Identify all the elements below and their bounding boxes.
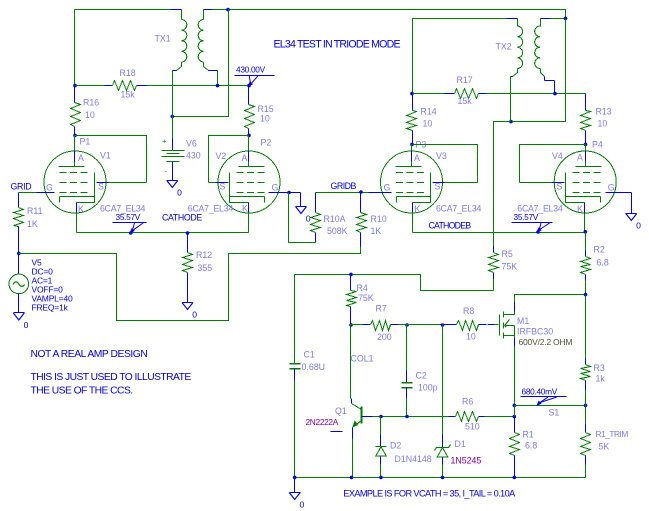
resistor R5 75K [489, 247, 518, 291]
svg-text:R17: R17 [457, 75, 473, 85]
wire: TX2 left coil top feed from P3 rail [413, 19, 518, 94]
resistor R6 510 [449, 397, 515, 432]
text: THIS IS JUST USED TO ILLUSTRATE [31, 372, 192, 383]
junction: R4 bottom / COL1 node [349, 323, 353, 327]
svg-text:D1N4148: D1N4148 [395, 454, 432, 464]
svg-text:P4: P4 [592, 140, 603, 150]
resistor R2 6.8 [581, 233, 609, 295]
svg-text:FREQ=1k: FREQ=1k [32, 303, 69, 313]
junction: R6/R1 node [513, 415, 517, 419]
svg-text:A: A [414, 153, 420, 163]
viewpoint 680.40mV [521, 387, 567, 407]
svg-text:S: S [557, 182, 563, 192]
junction: V5 top node [17, 252, 21, 256]
svg-text:508K: 508K [327, 226, 348, 236]
junction: 35.57V point on cathode rail [129, 231, 133, 235]
svg-text:75K: 75K [358, 293, 374, 303]
wire: TX2 right coil top to B+ [541, 18, 566, 20]
svg-text:G: G [608, 183, 615, 193]
junction: bottom rail R1 [513, 476, 517, 480]
text: EL34 TEST IN TRIODE MODE [274, 39, 401, 51]
tube V4 6CA7_EL34 [517, 151, 620, 215]
junction: R12 top [186, 231, 190, 235]
wire: V2 grid to ground and R10A [277, 193, 301, 207]
resistor R8 10 [443, 306, 495, 342]
svg-text:75K: 75K [502, 262, 518, 272]
svg-text:V1: V1 [100, 151, 111, 161]
svg-text:R2: R2 [594, 245, 605, 255]
svg-text:100p: 100p [418, 383, 438, 393]
source V5 sine [9, 254, 73, 313]
svg-text:K: K [78, 204, 84, 214]
wire: V4 screen-plate loop [520, 145, 586, 183]
transistor Q1 2N2222A [306, 399, 373, 478]
svg-text:K: K [577, 204, 583, 214]
tube V2 6CA7_EL34 [188, 151, 285, 214]
wire: top-left B+ rail to TX1 left coil top [75, 9, 182, 11]
svg-text:G: G [384, 183, 391, 193]
resistor R4 75K [347, 275, 374, 325]
svg-text:A: A [242, 153, 248, 163]
svg-text:R18: R18 [120, 68, 136, 78]
svg-text:6.8: 6.8 [525, 441, 537, 451]
svg-text:R5: R5 [502, 249, 513, 259]
text: S1 [549, 408, 560, 418]
svg-text:35.57V: 35.57V [116, 212, 141, 222]
svg-text:A: A [577, 153, 583, 163]
wire: V5 signal run to R10 [19, 247, 361, 321]
junction: P4 plate node [584, 140, 603, 150]
resistor R10A 508K [311, 193, 348, 243]
resistor R17 15k [413, 75, 586, 106]
svg-text:K: K [242, 204, 248, 214]
junction: P1 plate node [73, 134, 90, 147]
transformer TX1 [155, 10, 218, 71]
svg-text:15k: 15k [121, 90, 136, 100]
svg-text:GRIDB: GRIDB [331, 181, 357, 191]
junction: R7 right / C2 top [405, 323, 409, 327]
junction: D2 top on base line [379, 415, 383, 419]
svg-text:R3: R3 [594, 363, 605, 373]
junction: D1 top on gate line [441, 323, 445, 327]
junction: V6 top jog [171, 115, 175, 119]
svg-text:THE USE OF THE CCS.: THE USE OF THE CCS. [31, 386, 133, 397]
resistor R15 10 [245, 86, 274, 136]
svg-text:0: 0 [24, 320, 29, 330]
junction: R15 top / 430V point [247, 84, 251, 88]
svg-text:R13: R13 [596, 107, 612, 117]
svg-text:TX1: TX1 [155, 34, 171, 44]
svg-text:G: G [272, 183, 279, 193]
transformer TX2 [496, 19, 545, 81]
wire: bottom ground rail [295, 477, 586, 479]
svg-text:EL34 TEST IN TRIODE MODE: EL34 TEST IN TRIODE MODE [274, 39, 401, 51]
svg-text:0: 0 [300, 500, 305, 510]
wire: GRID to V1 grid [19, 192, 45, 194]
ground 0 bottom rail [289, 478, 304, 510]
svg-text:10: 10 [423, 119, 433, 129]
svg-text:TX2: TX2 [496, 42, 512, 52]
capacitor C1 0.68U [290, 275, 325, 478]
svg-text:+: + [162, 137, 167, 146]
wire: V1 screen-plate loop [75, 136, 147, 183]
resistor R12 355 [183, 233, 213, 303]
wire: TX1 left coil bottom down to V6 [172, 71, 174, 149]
svg-text:V4: V4 [552, 151, 563, 161]
text: GRIDB [331, 181, 357, 191]
svg-text:R15: R15 [258, 104, 274, 114]
svg-text:GRID: GRID [11, 182, 32, 192]
svg-text:R12: R12 [196, 250, 212, 260]
svg-text:1k: 1k [596, 374, 606, 384]
junction: bottom rail Q1 emitter [350, 476, 354, 480]
text: THE USE OF THE CCS. [31, 386, 133, 397]
viewpoint 35.57V (right) [512, 212, 553, 233]
svg-text:THIS IS JUST USED TO ILLUSTRAT: THIS IS JUST USED TO ILLUSTRATE [31, 372, 192, 383]
ground 0 below V6 [167, 181, 183, 198]
wire: GRIDB net [316, 192, 381, 194]
svg-text:0: 0 [192, 310, 197, 320]
svg-text:6CA7_EL34: 6CA7_EL34 [436, 204, 482, 214]
svg-text:R16: R16 [83, 98, 99, 108]
resistor R3 1k [581, 295, 606, 406]
junction: R18 left node [73, 84, 77, 88]
svg-text:R8: R8 [463, 306, 474, 316]
svg-text:Q1: Q1 [335, 406, 347, 416]
wire: R5 bottom to R4 top run [295, 275, 494, 291]
resistor R1 6.8 [510, 406, 538, 478]
svg-text:10: 10 [260, 114, 270, 124]
text: CATHODEB [429, 221, 472, 231]
svg-text:15k: 15k [458, 96, 473, 106]
junction: C2 bottom on base line [405, 415, 409, 419]
junction: M1 drain sense node [584, 293, 588, 297]
svg-text:5K: 5K [599, 442, 610, 452]
resistor R16 10 [71, 86, 100, 136]
svg-text:R10A: R10A [324, 214, 346, 224]
resistor R14 10 [407, 94, 437, 145]
wire: V3 screen-plate loop [412, 145, 478, 183]
wire: V4 grid to ground [615, 193, 632, 214]
wire: TX2 right coil bottom to R17 rail [545, 81, 555, 94]
svg-text:35.57V: 35.57V [514, 212, 539, 222]
svg-text:430: 430 [186, 151, 201, 161]
svg-text:1K: 1K [371, 226, 382, 236]
svg-text:M1: M1 [517, 316, 529, 326]
svg-text:600V/2.2 OHM: 600V/2.2 OHM [519, 337, 573, 347]
svg-text:2N2222A: 2N2222A [306, 417, 339, 427]
svg-text:V2: V2 [216, 151, 227, 161]
wire: S1 horizontal [515, 405, 586, 407]
junction: TX2 left coil bottom [509, 120, 513, 124]
wire: V2 screen-plate loop [209, 136, 249, 183]
svg-text:S: S [220, 182, 226, 192]
wire: M1 drain to R2/R3 node [515, 295, 586, 315]
wire: M1 source down / S1 node [514, 336, 516, 406]
svg-text:D1: D1 [455, 439, 466, 449]
svg-text:0: 0 [306, 214, 311, 224]
viewpoint 430.00V [235, 65, 275, 87]
svg-text:R1: R1 [523, 430, 534, 440]
svg-text:IRFBC30: IRFBC30 [517, 327, 553, 337]
junction: bottom rail D1 [441, 476, 445, 480]
svg-text:R4: R4 [357, 283, 368, 293]
wire: CATHODE rail [77, 213, 249, 233]
junction: S1 node [513, 404, 517, 408]
text: COL1 [351, 354, 374, 364]
resistor R13 10 [581, 94, 612, 145]
wire: V2 grid node down to R10A bottom [289, 193, 316, 243]
svg-text:R6: R6 [462, 397, 473, 407]
junction: TX1 right bottom on plate rail [216, 84, 220, 88]
ground 0 below V5 [13, 313, 28, 331]
svg-text:355: 355 [198, 263, 213, 273]
junction: bottom rail D2 [379, 476, 383, 480]
svg-text:0.68U: 0.68U [302, 362, 325, 372]
battery V6 430 [162, 117, 201, 181]
wire: TX1 right coil top to main top rail toward TX2 [204, 10, 566, 19]
svg-text:A: A [78, 153, 84, 163]
svg-text:G: G [46, 183, 53, 193]
resistor R7 200 [351, 304, 407, 343]
svg-text:200: 200 [377, 332, 392, 342]
junction: P3 plate node [410, 140, 426, 150]
tube V3 6CA7_EL34 [377, 151, 482, 215]
wire: B+ vertical down right side [511, 19, 566, 122]
svg-text:V3: V3 [436, 151, 447, 161]
svg-text:S: S [98, 182, 104, 192]
svg-text:R11: R11 [27, 206, 43, 216]
wire: CATHODEB rail [413, 213, 588, 234]
wire: B+ stub down to R5 [494, 122, 511, 247]
svg-text:R10: R10 [371, 214, 387, 224]
junction: bottom rail C1 [293, 476, 297, 480]
ground 0 at V2 grid [296, 207, 311, 224]
svg-text:CATHODEB: CATHODEB [429, 221, 472, 231]
junction: top rail / B+ feed [226, 8, 230, 12]
svg-text:430.00V: 430.00V [236, 65, 266, 75]
svg-text:P1: P1 [80, 137, 91, 147]
wire: Q1 base line [373, 416, 449, 418]
svg-text:0: 0 [177, 188, 182, 198]
MOSFET M1 IRFBC30 [495, 312, 573, 348]
diode D2 D1N4148 [376, 417, 432, 478]
svg-text:R7: R7 [376, 304, 387, 314]
svg-text:S1: S1 [549, 408, 560, 418]
svg-text:CATHODE: CATHODE [162, 213, 202, 223]
wire: B+ vertical down to V6 jog [173, 10, 229, 117]
ground 0 at V4 grid [626, 214, 642, 231]
wire: gate line R7 to R8 [407, 324, 443, 326]
svg-text:6.8: 6.8 [597, 258, 609, 268]
text: CATHODE [162, 213, 202, 223]
svg-text:S: S [435, 182, 441, 192]
wire: left vertical from top rail to R18 rail [74, 10, 76, 86]
svg-text:D2: D2 [390, 441, 401, 451]
svg-text:10: 10 [466, 332, 476, 342]
junction: R14 top / TX2 left top rail [410, 92, 414, 96]
resistor R18 15k [75, 68, 249, 100]
ground 0 below R12 [182, 303, 197, 320]
svg-text:0: 0 [636, 221, 641, 231]
svg-text:1N5245: 1N5245 [451, 456, 482, 466]
capacitor C2 100p [402, 325, 438, 417]
junction: V2 grid node [287, 191, 291, 195]
svg-text:V6: V6 [186, 139, 197, 149]
svg-text:EXAMPLE IS FOR VCATH = 35, I_T: EXAMPLE IS FOR VCATH = 35, I_TAIL = 0.10… [343, 489, 516, 499]
text: NOT A REAL AMP DESIGN [31, 349, 148, 360]
svg-text:R1_TRIM: R1_TRIM [596, 429, 629, 439]
svg-text:COL1: COL1 [351, 354, 374, 364]
svg-text:C1: C1 [304, 350, 315, 360]
svg-text:P2: P2 [261, 138, 272, 148]
resistor R10 1K [357, 193, 387, 247]
svg-text:10: 10 [85, 110, 95, 120]
wire: TX1 right coil bottom to plate rail [217, 71, 219, 86]
junction: R10 top on GRIDB [359, 190, 363, 194]
junction: B+ at TX2 [564, 17, 568, 21]
svg-text:510: 510 [465, 422, 480, 432]
svg-text:R14: R14 [421, 107, 437, 117]
junction: P2 plate node [247, 134, 271, 148]
svg-text:1K: 1K [27, 219, 38, 229]
junction: 35.57V point on CATHODEB [536, 230, 540, 234]
junction: R4 top [349, 273, 353, 277]
svg-text:10: 10 [598, 119, 608, 129]
text: GRID label [11, 182, 32, 192]
tube V1 6CA7_EL34 [41, 151, 146, 215]
resistor R11 1K [14, 193, 43, 254]
zener diode D1 1N5245 [435, 325, 482, 478]
wire: COL1 collector run [350, 325, 352, 399]
viewpoint 35.57V (left) [113, 212, 147, 234]
junction: R3 bottom [584, 404, 588, 408]
junction: TX2 right bottom on R17 rail [553, 92, 557, 96]
svg-text:NOT A REAL AMP DESIGN: NOT A REAL AMP DESIGN [31, 349, 148, 360]
text: EXAMPLE IS FOR VCATH = 35, I_TAIL = 0.10A [343, 489, 516, 499]
resistor R1_TRIM 5K [581, 406, 629, 478]
svg-text:C2: C2 [416, 371, 427, 381]
svg-text:680.40mV: 680.40mV [522, 387, 558, 397]
svg-text:K: K [415, 204, 421, 214]
wire: TX2 left coil bottom jog [510, 77, 512, 122]
